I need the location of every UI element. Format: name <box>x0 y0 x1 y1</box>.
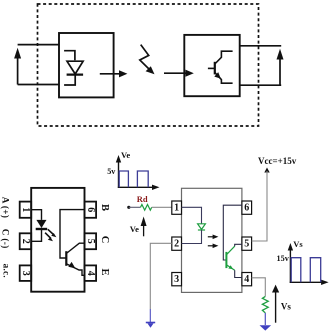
svg-text:2: 2 <box>174 239 179 250</box>
svg-text:4: 4 <box>244 274 249 285</box>
resistor Rd <box>141 205 152 211</box>
svg-text:6: 6 <box>85 207 96 212</box>
wire pin6 to base (U1 internal) <box>223 205 242 260</box>
wire collector to pin5 (U1 internal) <box>235 244 242 246</box>
Vs waveform vertical axis <box>288 243 293 283</box>
pin 2 (DIP) <box>20 233 32 249</box>
svg-text:Vs: Vs <box>281 302 291 312</box>
ground (output side) <box>260 325 272 330</box>
svg-text:15v: 15v <box>277 254 290 263</box>
svg-text:A (+): A (+) <box>1 197 11 219</box>
pin 3 (DIP) <box>20 265 32 281</box>
svg-text:5: 5 <box>85 239 96 244</box>
svg-text:5: 5 <box>244 239 249 250</box>
phototransistor Q3 inside U1 <box>226 246 234 270</box>
arrow: light into phototransistor box <box>164 70 194 77</box>
pin 3 (U1) <box>172 273 182 286</box>
svg-text:3: 3 <box>174 274 179 285</box>
wire LED to pin2 (U1 internal) <box>182 230 202 244</box>
svg-text:B: B <box>99 204 110 211</box>
svg-text:Rd: Rd <box>137 194 148 204</box>
Ve waveform horizontal axis <box>118 185 160 190</box>
svg-text:Ve: Ve <box>121 150 130 160</box>
phototransistor module box <box>184 35 239 96</box>
input current arrow <box>14 48 21 85</box>
phototransistor Q1 <box>208 51 233 83</box>
svg-text:3: 3 <box>20 271 31 276</box>
wire pin1 to LED (U1 internal) <box>182 207 202 224</box>
wire pin6 to base (DIP) <box>60 210 85 258</box>
wire pin4 to load resistor <box>252 278 266 297</box>
wire dot to Rd <box>129 206 141 208</box>
Ve input arrow <box>141 217 147 237</box>
wire input bottom <box>18 84 59 86</box>
arrow: emitted light inside LED box <box>100 70 128 77</box>
wire pin1 to LED anode <box>31 210 41 220</box>
LED D2 inside DIP <box>36 220 48 229</box>
pin 6 (U1) <box>242 201 252 214</box>
ground (input side) <box>146 323 155 328</box>
DIP-6 package body <box>31 188 84 292</box>
wire Rd to pin1 <box>152 206 172 208</box>
svg-text:4: 4 <box>85 271 96 276</box>
svg-text:Vcc=+15v: Vcc=+15v <box>258 156 297 166</box>
svg-text:C (-): C (-) <box>1 229 11 249</box>
output current arrow <box>277 49 284 85</box>
wire Vcc to pin5 <box>252 171 267 241</box>
wire output bottom <box>240 84 282 86</box>
Vcc supply arrow <box>264 168 269 173</box>
Vs waveform horizontal axis <box>290 280 329 285</box>
pin 1 (DIP) <box>20 202 32 218</box>
light symbol (lightning bolt) <box>140 45 155 75</box>
svg-text:2: 2 <box>20 239 31 244</box>
Ve waveform vertical axis <box>116 155 121 188</box>
LED D3 inside U1 <box>198 224 206 230</box>
wire input top <box>18 44 59 46</box>
wire emitter to pin4 (U1 internal) <box>235 270 242 277</box>
phototransistor Q2 inside DIP <box>66 243 84 275</box>
pin 4 (U1) <box>242 273 252 286</box>
wire output top <box>240 45 282 47</box>
svg-text:Vs: Vs <box>293 239 303 249</box>
LED module box <box>59 33 114 97</box>
svg-text:6: 6 <box>244 203 249 214</box>
wire LED cathode to pin2 <box>31 229 41 241</box>
svg-text:1: 1 <box>174 203 179 214</box>
pin 2 (U1) <box>172 237 182 250</box>
Ve waveform trace <box>119 171 148 187</box>
resistor RL (output load) <box>262 296 268 313</box>
light emission arrows inside DIP <box>45 229 56 241</box>
wire RL to ground <box>264 313 266 325</box>
dashed isolation boundary box <box>38 4 259 126</box>
LED D1 <box>64 51 83 85</box>
wire pin2 to input ground <box>150 243 172 309</box>
svg-text:Ve: Ve <box>130 224 139 234</box>
pin 5 (U1) <box>242 237 252 250</box>
node: input terminal dot <box>127 206 130 209</box>
pin 6 (DIP) <box>85 202 97 218</box>
Vs waveform trace <box>291 258 321 283</box>
pin 1 (U1) <box>172 201 182 214</box>
svg-text:1: 1 <box>20 207 31 212</box>
svg-text:C: C <box>99 236 110 244</box>
svg-text:E: E <box>99 268 110 275</box>
svg-text:5v: 5v <box>107 167 116 176</box>
svg-text:a.c.: a.c. <box>2 264 12 278</box>
pin 5 (DIP) <box>85 233 97 249</box>
pin 4 (DIP) <box>85 265 97 281</box>
Vs output arrow <box>272 285 279 323</box>
light emission arrows inside U1 <box>208 235 219 249</box>
optocoupler U1 body <box>182 188 242 292</box>
